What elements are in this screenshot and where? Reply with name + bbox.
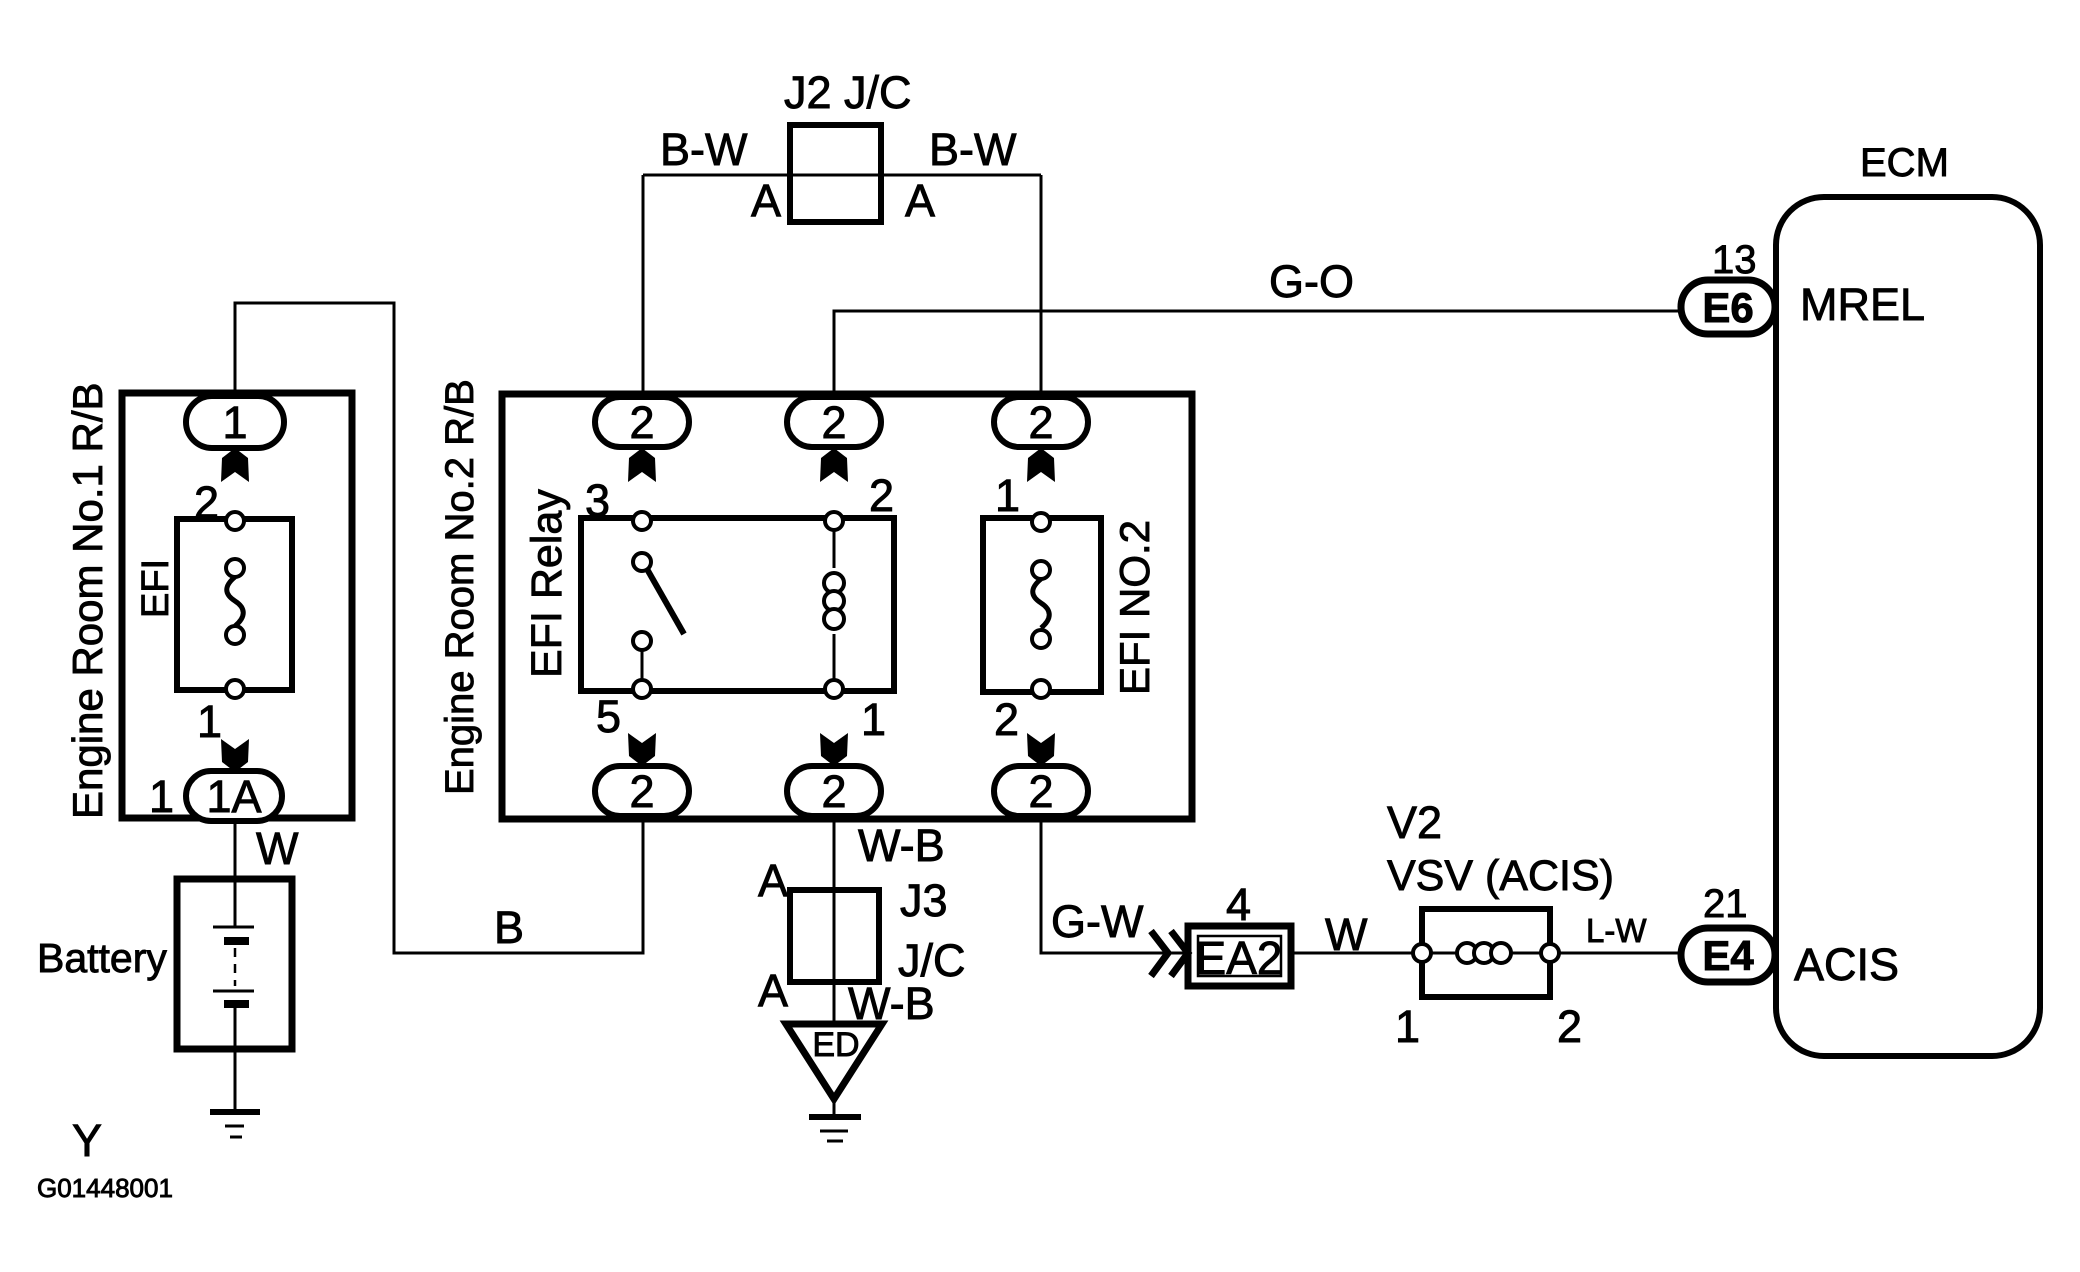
battery cell plates xyxy=(213,927,254,1004)
svg-text:G-W: G-W xyxy=(1051,896,1144,947)
connector oval E6 xyxy=(1681,280,1775,334)
svg-text:A: A xyxy=(758,965,788,1016)
wire battery/1A to Engine Room No.2 R/B (B wire) xyxy=(235,303,643,953)
svg-text:EFI NO.2: EFI NO.2 xyxy=(1111,520,1158,695)
svg-text:J2 J/C: J2 J/C xyxy=(784,67,912,118)
svg-text:W: W xyxy=(1325,909,1368,960)
connector oval 1 (No.1 R/B top) xyxy=(186,396,284,448)
svg-text:A: A xyxy=(751,175,781,226)
svg-text:ECM: ECM xyxy=(1860,141,1949,185)
svg-text:Y: Y xyxy=(72,1115,102,1166)
svg-text:B-W: B-W xyxy=(660,124,748,175)
svg-text:Engine Room No.2 R/B: Engine Room No.2 R/B xyxy=(438,379,482,795)
svg-text:1: 1 xyxy=(1395,1001,1420,1052)
svg-text:2: 2 xyxy=(194,477,219,528)
solenoid V2 VSV (ACIS) box xyxy=(1422,909,1550,997)
svg-text:2: 2 xyxy=(1557,1001,1582,1052)
ECM box xyxy=(1776,197,2040,1056)
svg-text:MREL: MREL xyxy=(1800,279,1925,330)
svg-text:L-W: L-W xyxy=(1586,912,1647,949)
connector oval 2 (relay col2 top) xyxy=(787,397,881,447)
fuse EFI terminals and element xyxy=(226,512,244,698)
svg-text:Engine Room No.1 R/B: Engine Room No.1 R/B xyxy=(64,382,111,819)
arrow down (relay col1) xyxy=(628,733,656,766)
svg-text:2: 2 xyxy=(1028,397,1053,448)
junction J2 J/C box xyxy=(790,125,881,222)
solenoid coil VSV xyxy=(1413,943,1559,963)
connector oval 2 (relay col1 bottom) xyxy=(595,766,689,816)
relay EFI Relay box xyxy=(581,518,894,691)
box Engine Room No.2 R/B xyxy=(502,394,1192,819)
svg-text:ACIS: ACIS xyxy=(1794,939,1899,990)
wire G-O from relay pin 2 to ECM E6 xyxy=(834,311,1683,397)
wire ED triangle to ground xyxy=(833,1099,836,1116)
wire B-W left from J2 to relay pin 3 xyxy=(642,175,645,397)
svg-text:E6: E6 xyxy=(1702,284,1753,331)
relay contact terminals and switch arm xyxy=(633,512,684,698)
svg-text:1: 1 xyxy=(995,470,1020,521)
connector EA2 box xyxy=(1188,926,1291,986)
battery box xyxy=(177,879,292,1049)
svg-text:1: 1 xyxy=(197,696,222,747)
arrow up (relay col1) xyxy=(628,448,656,482)
svg-text:V2: V2 xyxy=(1387,797,1442,848)
svg-text:E4: E4 xyxy=(1702,932,1754,979)
svg-text:13: 13 xyxy=(1712,238,1757,282)
svg-text:VSV (ACIS): VSV (ACIS) xyxy=(1387,852,1614,900)
svg-text:G-O: G-O xyxy=(1269,256,1354,307)
connector oval 2 (EFI NO.2 bottom) xyxy=(994,766,1088,816)
wire battery to ground xyxy=(234,1004,237,1111)
svg-text:21: 21 xyxy=(1703,882,1748,926)
wire relay pin 1 down through J3 to ED ground xyxy=(833,820,836,1024)
svg-text:2: 2 xyxy=(1028,766,1053,817)
svg-text:A: A xyxy=(758,855,788,906)
svg-text:5: 5 xyxy=(596,691,621,742)
svg-text:EFI: EFI xyxy=(135,559,177,618)
svg-text:2: 2 xyxy=(994,694,1019,745)
ground ED triangle xyxy=(786,1024,882,1099)
svg-text:B-W: B-W xyxy=(929,124,1017,175)
arrow down (relay col2) xyxy=(820,733,848,766)
wire W from EA2 to VSV pin 1 xyxy=(1291,952,1414,955)
svg-text:J3: J3 xyxy=(900,875,948,926)
svg-text:1: 1 xyxy=(149,771,174,822)
ground (below ED) xyxy=(809,1117,861,1141)
box Engine Room No.1 R/B xyxy=(122,393,352,818)
arrow up (EFI NO.2 col) xyxy=(1027,448,1055,482)
connector oval 2 (relay col2 bottom) xyxy=(787,766,881,816)
svg-text:Battery: Battery xyxy=(37,935,167,981)
ground (battery) xyxy=(210,1112,260,1137)
svg-text:2: 2 xyxy=(629,766,654,817)
svg-text:W-B: W-B xyxy=(848,978,935,1029)
fuse EFI NO.2 terminals and element xyxy=(1032,513,1050,698)
svg-text:2: 2 xyxy=(629,397,654,448)
arrow up (No.1 col) xyxy=(221,448,249,482)
svg-text:W: W xyxy=(256,823,299,874)
wire 1A oval to battery xyxy=(234,818,237,927)
svg-text:2: 2 xyxy=(821,397,846,448)
fuse EFI box xyxy=(177,519,292,690)
arrow down (No.1 col) xyxy=(221,739,249,772)
wire B-W right from J2 down to EFI NO.2 pin 1 xyxy=(1040,175,1043,397)
fuse EFI NO.2 box xyxy=(983,518,1101,692)
arrow up (relay col2) xyxy=(820,448,848,482)
wire L-W from VSV pin 2 to ECM E4 xyxy=(1558,952,1682,955)
wire B-W horizontal through J2 J/C xyxy=(643,174,1041,177)
connector oval 1A (No.1 R/B bottom) xyxy=(186,771,282,821)
svg-text:2: 2 xyxy=(821,766,846,817)
svg-text:EFI Relay: EFI Relay xyxy=(523,489,571,678)
arrow down (EFI NO.2 col) xyxy=(1027,733,1055,766)
svg-text:ED: ED xyxy=(812,1026,859,1064)
junction J3 J/C box xyxy=(790,890,879,982)
connector oval 2 (relay col1 top) xyxy=(595,397,689,447)
svg-text:2: 2 xyxy=(869,470,894,521)
svg-text:4: 4 xyxy=(1226,879,1251,930)
relay coil xyxy=(824,512,844,698)
svg-text:1: 1 xyxy=(222,397,247,448)
svg-text:1A: 1A xyxy=(206,771,261,822)
splice chevrons into EA2 xyxy=(1151,931,1188,976)
connector oval E4 xyxy=(1681,928,1775,982)
connector oval 2 (EFI NO.2 top) xyxy=(994,397,1088,447)
svg-text:EA2: EA2 xyxy=(1196,932,1283,984)
svg-text:1: 1 xyxy=(861,694,886,745)
svg-text:A: A xyxy=(905,175,935,226)
svg-text:3: 3 xyxy=(585,475,610,526)
svg-text:W-B: W-B xyxy=(858,820,945,871)
svg-text:G01448001: G01448001 xyxy=(37,1173,173,1203)
wire G-W from EFI NO.2 pin 2 to EA2 xyxy=(1041,820,1188,953)
svg-text:B: B xyxy=(494,902,524,953)
